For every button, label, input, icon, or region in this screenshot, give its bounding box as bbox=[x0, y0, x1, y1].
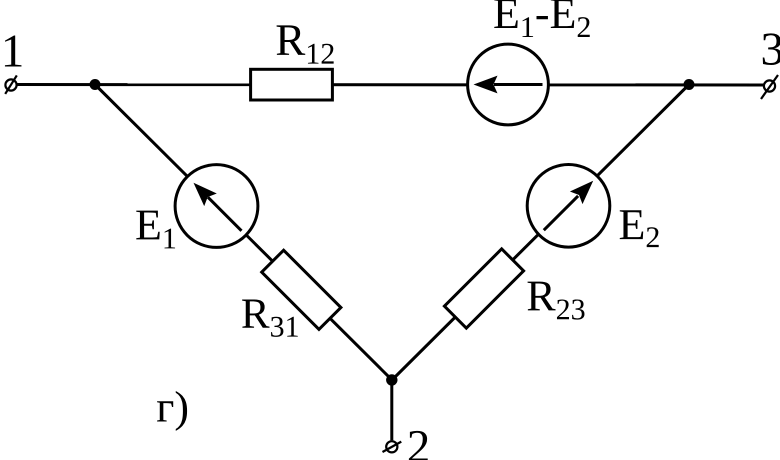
node 2 junction dot bbox=[386, 374, 397, 385]
wire: top horizontal from terminal 1 to terminal 3 bbox=[17, 83, 764, 87]
label E1 bbox=[136, 211, 175, 249]
wire: vertical from node 2 to terminal 2 bbox=[390, 380, 393, 440]
terminal 1 bbox=[5, 75, 17, 94]
node 3 junction dot bbox=[684, 79, 695, 90]
terminal 2 bbox=[383, 441, 402, 452]
label R12 bbox=[277, 25, 334, 63]
wire: right diagonal from node 3 to node 2 bbox=[392, 85, 689, 381]
label R31 bbox=[242, 300, 298, 337]
label г) figure caption bbox=[157, 391, 187, 431]
source E1 (EMF arrow pointing up-left) bbox=[175, 165, 258, 248]
resistor R23 bbox=[444, 249, 523, 328]
label 2 bbox=[409, 431, 428, 460]
terminal 3 bbox=[761, 75, 778, 99]
label 1 bbox=[5, 35, 22, 66]
label R23 bbox=[528, 282, 585, 320]
source E1-E2 (EMF arrow pointing left) bbox=[468, 44, 549, 125]
wire: left diagonal from node 1 to node 2 bbox=[95, 85, 392, 381]
label 3 bbox=[763, 33, 780, 65]
label E2 bbox=[620, 210, 659, 247]
resistor R12 bbox=[251, 69, 333, 100]
resistor R31 bbox=[262, 250, 341, 329]
source E2 (EMF arrow pointing up-right) bbox=[527, 165, 610, 248]
node 1 junction dot bbox=[90, 79, 101, 90]
label E1-E2 bbox=[494, 0, 589, 37]
